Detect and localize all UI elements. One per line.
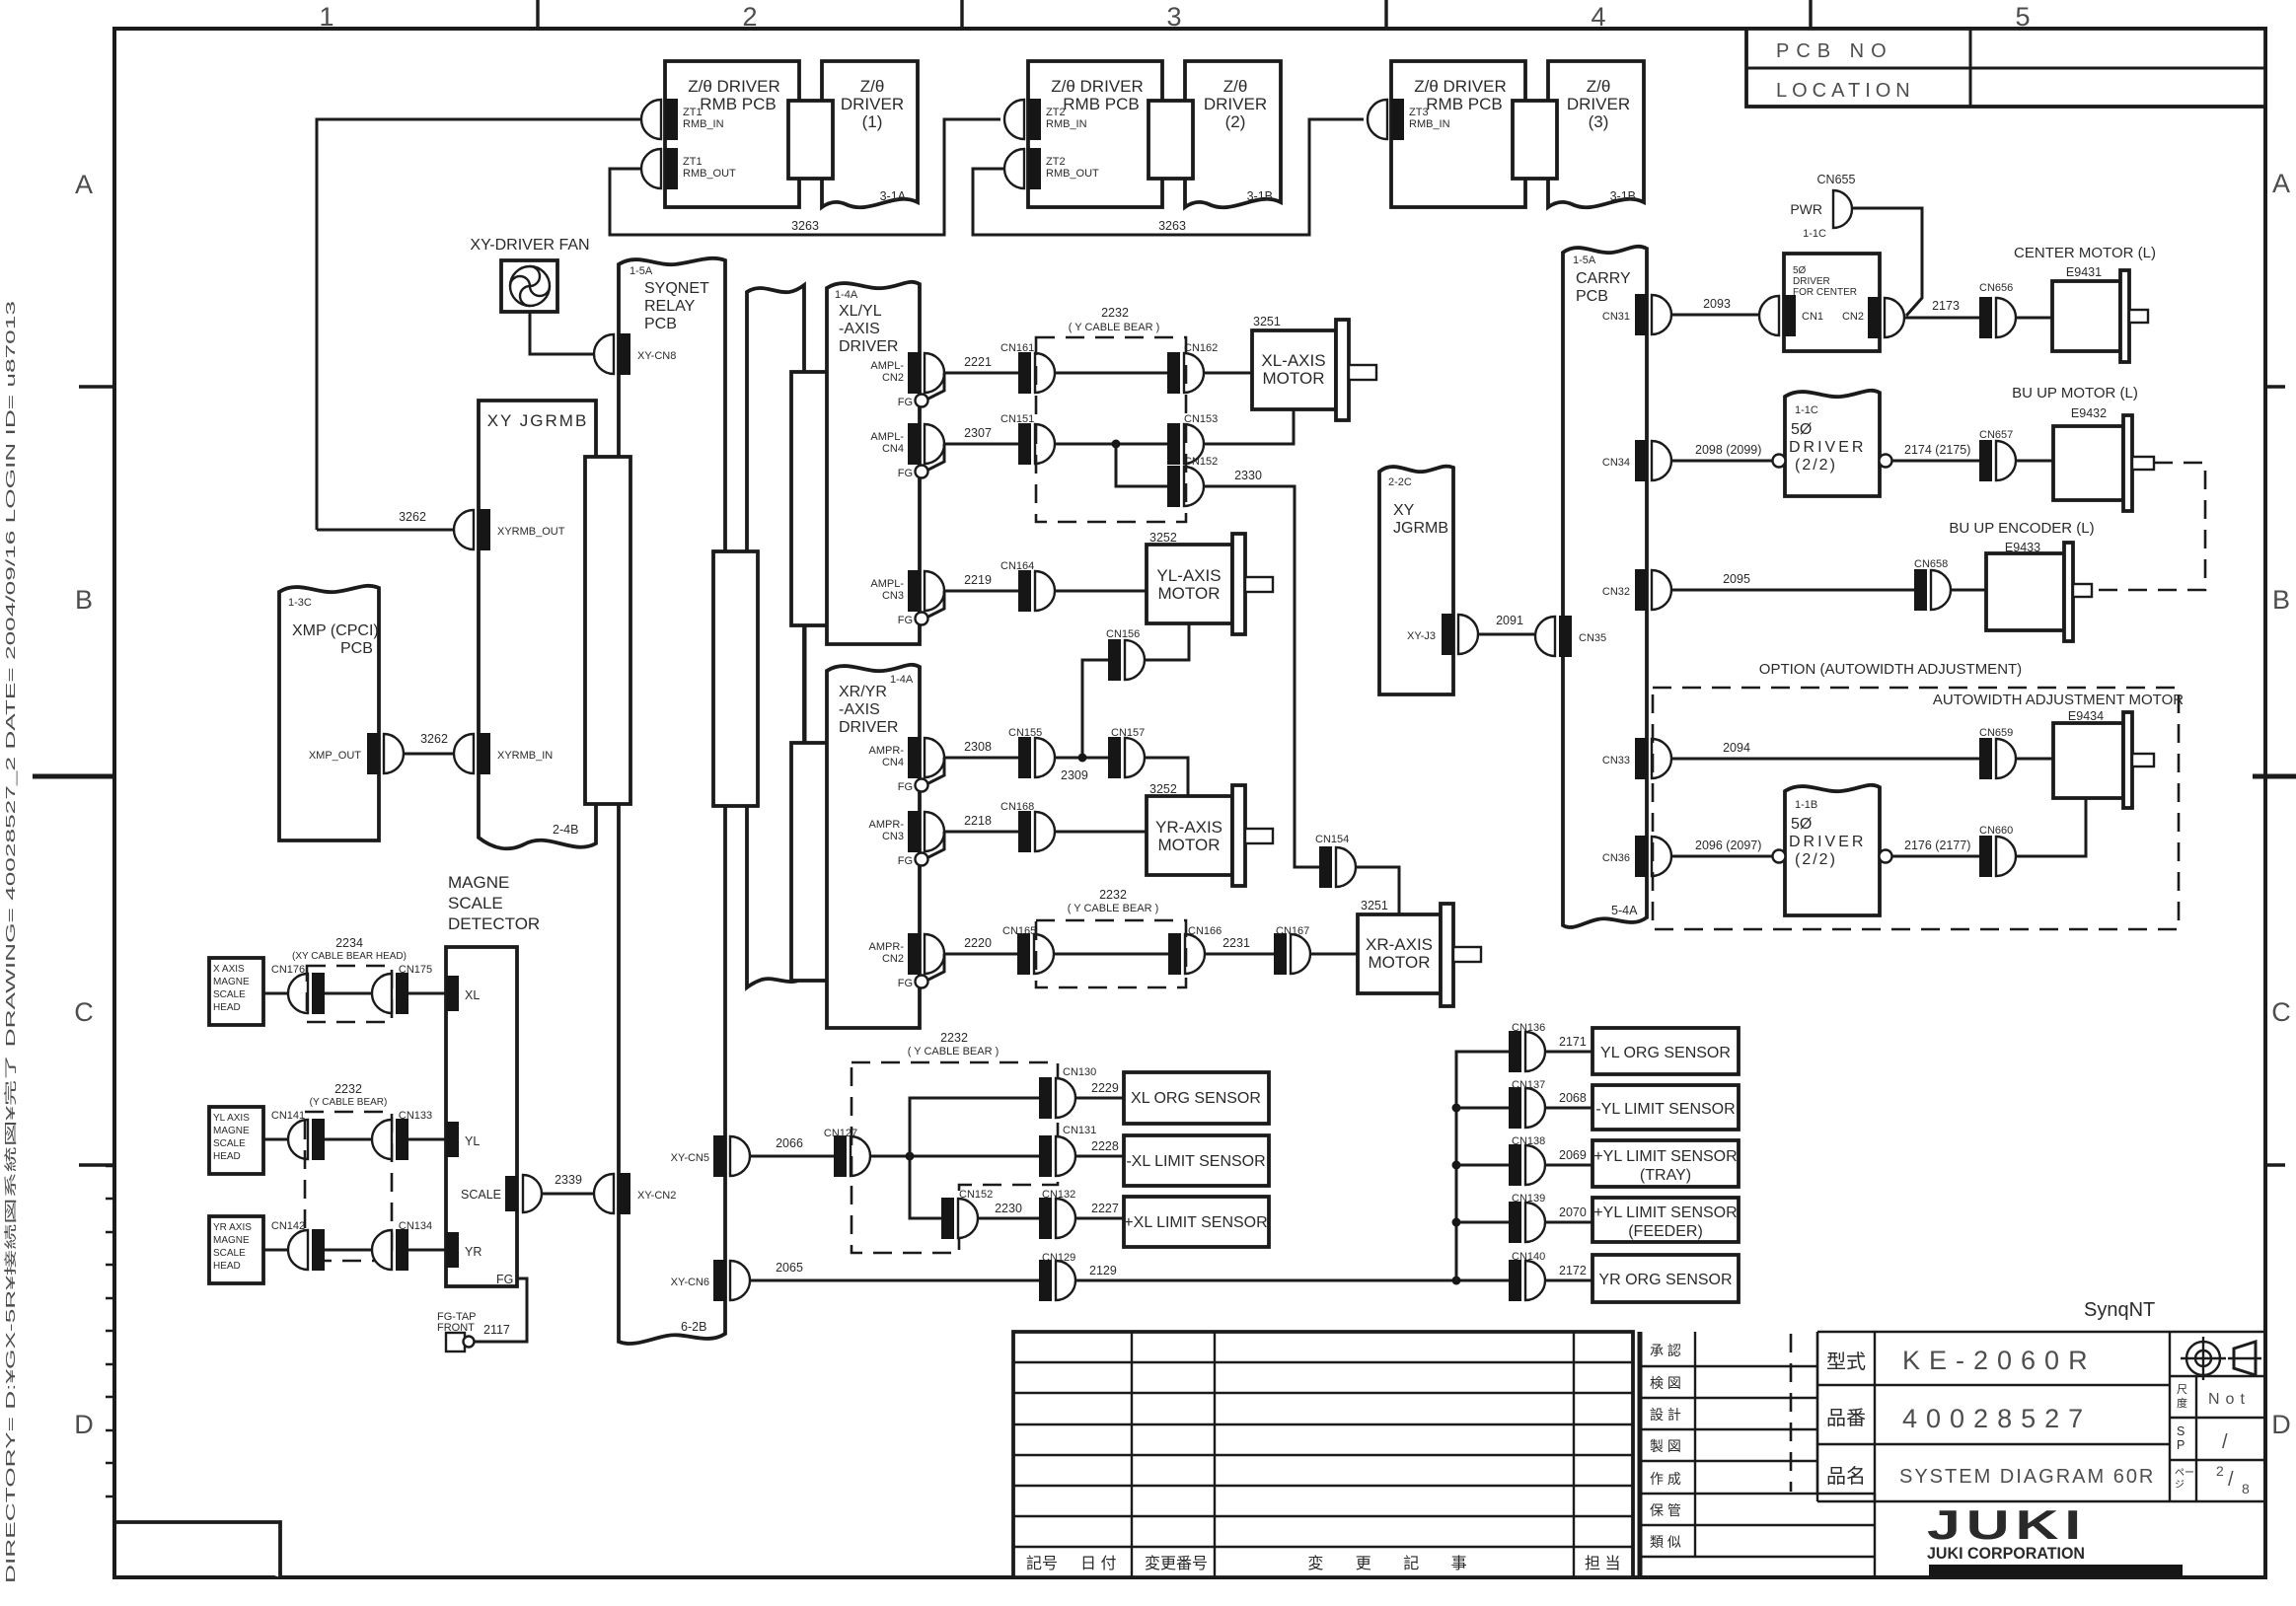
svg-text:YR AXIS: YR AXIS [213, 1222, 252, 1233]
svg-text:YL ORG SENSOR: YL ORG SENSOR [1600, 1045, 1731, 1061]
connector CN139 [1509, 1193, 1545, 1243]
dashed box 2234 XY CABLE BEAR HEAD [292, 936, 407, 1022]
svg-text:SynqNT: SynqNT [2084, 1299, 2155, 1321]
svg-text:A: A [2272, 169, 2290, 198]
svg-text:CN35: CN35 [1579, 632, 1606, 644]
wire 2093 CN31 to CN1 [1671, 297, 1759, 315]
svg-text:RMB PCB: RMB PCB [1426, 95, 1502, 113]
junction CN138 [1452, 1161, 1461, 1170]
svg-text:2232: 2232 [334, 1082, 362, 1096]
svg-text:-YL LIMIT SENSOR: -YL LIMIT SENSOR [1595, 1101, 1735, 1118]
-XL LIMIT SENSOR box [1124, 1135, 1269, 1186]
svg-text:PCB: PCB [1576, 288, 1608, 305]
svg-text:CN166: CN166 [1188, 925, 1222, 937]
svg-text:Z/θ: Z/θ [860, 77, 885, 96]
svg-text:PCB: PCB [340, 640, 373, 657]
svg-text:2308: 2308 [964, 740, 992, 754]
svg-text:4: 4 [1591, 2, 1605, 32]
connector CN127 [824, 1128, 870, 1177]
connector box between RMB PCB and DRIVER(3) [1513, 101, 1557, 179]
cable bus rect middle lower [791, 743, 836, 981]
svg-text:FRONT: FRONT [437, 1322, 475, 1334]
svg-text:MAGNE: MAGNE [448, 873, 509, 892]
svg-text:MAGNE: MAGNE [213, 977, 250, 987]
svg-text:ZT3: ZT3 [1409, 107, 1429, 118]
svg-text:CARRY: CARRY [1576, 270, 1631, 287]
svg-text:Z/θ DRIVER: Z/θ DRIVER [1051, 77, 1144, 96]
wire 3262 XMP_OUT to XYRMB_IN [404, 753, 454, 756]
svg-text:承 認: 承 認 [1650, 1343, 1681, 1358]
connector CN32 [1602, 569, 1671, 611]
-YL LIMIT SENSOR box [1592, 1085, 1739, 1130]
svg-text:( Y CABLE BEAR ): ( Y CABLE BEAR ) [1068, 903, 1159, 914]
connector CN176 [271, 964, 325, 1014]
svg-text:DRIVER: DRIVER [839, 338, 898, 355]
svg-text:JUKI CORPORATION: JUKI CORPORATION [1927, 1544, 2085, 1563]
svg-text:CN4: CN4 [882, 757, 904, 768]
connector CN129 [1039, 1252, 1075, 1301]
wire YL motor bottom to CN156 [1145, 623, 1189, 660]
svg-text:5Ø: 5Ø [1791, 421, 1812, 438]
cable bus rect A over XY JGRMB edge [585, 457, 630, 804]
svg-text:CN156: CN156 [1106, 628, 1140, 640]
svg-text:5-4A: 5-4A [1611, 904, 1638, 917]
svg-text:DRIVER: DRIVER [839, 719, 898, 736]
svg-text:RMB_OUT: RMB_OUT [683, 168, 736, 180]
YL-AXIS MOTOR [1147, 531, 1273, 634]
svg-text:2172: 2172 [1559, 1264, 1587, 1277]
connector XMP_OUT [309, 732, 448, 774]
svg-text:CN138: CN138 [1512, 1135, 1545, 1147]
connector ZT2 RMB_IN [1004, 99, 1087, 140]
svg-text:+XL LIMIT SENSOR: +XL LIMIT SENSOR [1124, 1214, 1267, 1231]
svg-text:CENTER MOTOR (L): CENTER MOTOR (L) [2014, 245, 2156, 261]
wire CN142 to CN134 [325, 1249, 372, 1252]
+XL LIMIT SENSOR box [1124, 1197, 1269, 1247]
connector CN33 [1602, 738, 1671, 779]
svg-text:CN136: CN136 [1512, 1022, 1545, 1034]
svg-text:CN130: CN130 [1063, 1066, 1096, 1078]
Z/theta driver assembly 1: RMB PCB box [665, 61, 799, 207]
wire CN162 to XL motor [1204, 372, 1252, 375]
svg-text:2: 2 [2216, 1463, 2224, 1479]
svg-text:B: B [75, 585, 93, 615]
svg-text:3251: 3251 [1253, 315, 1281, 328]
svg-text:3-1B: 3-1B [1610, 189, 1636, 203]
wire CN141 to CN133 [325, 1138, 372, 1141]
wire 2176 (2177) [1892, 839, 1979, 856]
wire 2308 [944, 740, 1018, 758]
wire CN154 to XR motor top [1356, 867, 1399, 914]
FG pin AMPR-CN2 [898, 954, 944, 989]
svg-text:1-5A: 1-5A [630, 265, 653, 277]
cable bus rect B over SYQNET right edge [713, 551, 758, 806]
svg-text:XR/YR: XR/YR [839, 684, 887, 700]
svg-text:(Y CABLE BEAR): (Y CABLE BEAR) [310, 1097, 388, 1108]
svg-text:E9434: E9434 [2068, 709, 2104, 723]
svg-text:変 更 記 事: 変 更 記 事 [1307, 1555, 1480, 1572]
svg-text:2093: 2093 [1703, 297, 1731, 311]
MAGNE SCALE DETECTOR box [446, 873, 540, 1286]
svg-text:S: S [2177, 1424, 2185, 1438]
svg-text:3-1B: 3-1B [1247, 189, 1273, 203]
connector CN162 [1167, 342, 1218, 394]
svg-text:CN152: CN152 [959, 1189, 993, 1201]
XY JGRMB box (torn bottom) [479, 401, 596, 848]
svg-text:CN658: CN658 [1914, 558, 1948, 570]
svg-text:2095: 2095 [1723, 572, 1750, 586]
dashed cable bear box upper [1036, 306, 1186, 522]
svg-text:A: A [75, 170, 93, 199]
svg-text:2-2C: 2-2C [1388, 476, 1412, 488]
wire 2219 [944, 573, 1018, 591]
approval table [1640, 1332, 1875, 1577]
svg-text:2232: 2232 [1099, 888, 1127, 902]
svg-text:ZT2: ZT2 [1046, 156, 1066, 168]
PCB NO / LOCATION table [1746, 29, 2265, 107]
connector AMPL-CN4 [870, 423, 944, 465]
branch CN137 [1456, 1107, 1509, 1110]
row divider long right [2253, 774, 2296, 779]
wire 2174 (2175) [1892, 443, 1979, 461]
svg-text:2228: 2228 [1091, 1139, 1119, 1153]
svg-text:CN36: CN36 [1602, 852, 1630, 864]
wire 2069 [1545, 1148, 1592, 1165]
svg-text:MAGNE: MAGNE [213, 1235, 250, 1246]
connector CN2 [1868, 297, 1904, 338]
svg-text:B: B [2272, 585, 2290, 615]
svg-text:MOTOR: MOTOR [1369, 953, 1431, 972]
svg-text:CN655: CN655 [1817, 173, 1856, 186]
wire head to CN176 [263, 992, 288, 995]
svg-text:AMPR-: AMPR- [869, 745, 905, 757]
wire junction down to CN152 top [1116, 444, 1167, 486]
svg-text:CN164: CN164 [1000, 560, 1034, 572]
svg-text:CN133: CN133 [399, 1110, 432, 1122]
svg-text:2-4B: 2-4B [553, 823, 578, 837]
FG pin AMPL-CN3 [898, 591, 944, 626]
svg-text:BU UP MOTOR (L): BU UP MOTOR (L) [2012, 385, 2138, 401]
connector CN34 [1602, 440, 1671, 481]
Z/theta DRIVER (2) box with torn bottom [1185, 61, 1281, 207]
svg-text:CN656: CN656 [1979, 282, 2013, 294]
svg-text:FOR CENTER: FOR CENTER [1793, 287, 1857, 298]
svg-text:2091: 2091 [1496, 614, 1523, 627]
connector CN130 [1039, 1066, 1096, 1119]
dashed link BU UP MOTOR to encoder [2092, 463, 2205, 590]
wire into ZT1 RMB_IN from XYRMB_OUT net [317, 119, 641, 530]
svg-text:品名: 品名 [1826, 1465, 1866, 1488]
svg-text:ジ: ジ [2175, 1480, 2185, 1491]
XL ORG SENSOR box [1124, 1072, 1269, 1124]
svg-text:/: / [2228, 1469, 2234, 1491]
svg-text:CN34: CN34 [1602, 457, 1630, 469]
wire 2339 SCALE to XY-CN2 [542, 1173, 594, 1194]
connector CN131 [1039, 1125, 1096, 1177]
svg-text:SCALE: SCALE [213, 1248, 246, 1259]
pin SCALE on detector [461, 1175, 542, 1212]
svg-text:XL: XL [465, 988, 480, 1002]
svg-text:CN142: CN142 [271, 1220, 305, 1232]
part info table [1817, 1332, 2265, 1501]
Z/theta driver assembly 2: RMB PCB box [1028, 61, 1162, 207]
wire CN134 to YR pin [408, 1249, 446, 1252]
svg-text:JGRMB: JGRMB [1393, 520, 1448, 537]
BU UP MOTOR (L) [2012, 385, 2154, 511]
svg-text:CN137: CN137 [1512, 1079, 1545, 1091]
wire 2227 [1075, 1202, 1124, 1218]
5 phase DRIVER (2/2) box upper (torn top) [1785, 391, 1880, 496]
wire 2096 (2097) [1671, 839, 1772, 856]
XMP (CPCI) PCB box (torn top) [279, 586, 379, 840]
svg-text:( Y CABLE BEAR ): ( Y CABLE BEAR ) [908, 1046, 1000, 1058]
junction CN139 [1452, 1218, 1461, 1227]
XL/YL-AXIS DRIVER box (torn top) [827, 282, 920, 644]
svg-text:3263: 3263 [1158, 219, 1186, 233]
wire CN157 to YR motor top [1145, 758, 1188, 796]
svg-text:2234: 2234 [335, 936, 363, 950]
svg-text:CN131: CN131 [1063, 1125, 1096, 1136]
svg-text:1-5A: 1-5A [1573, 255, 1596, 266]
connector CN141 [271, 1110, 325, 1160]
svg-text:RMB_IN: RMB_IN [1046, 118, 1087, 130]
wire 2070 [1545, 1205, 1592, 1222]
row divider ticks right [2263, 387, 2285, 1165]
YL AXIS MAGNE SCALE HEAD box [209, 1107, 263, 1174]
svg-text:SYSTEM DIAGRAM 60R: SYSTEM DIAGRAM 60R [1899, 1466, 2155, 1488]
svg-text:Not: Not [2208, 1391, 2251, 1408]
dashed cable bear box lower [1036, 888, 1186, 987]
row divider long left [33, 774, 116, 779]
svg-text:DRIVER: DRIVER [841, 95, 904, 113]
svg-text:D: D [74, 1410, 94, 1439]
svg-text:E9432: E9432 [2071, 406, 2107, 420]
svg-text:CN2: CN2 [1842, 311, 1864, 323]
svg-text:XY-CN2: XY-CN2 [637, 1190, 676, 1202]
connector XY-CN2 [594, 1173, 676, 1214]
BU UP ENCODER (L) [1949, 520, 2094, 641]
svg-text:2230: 2230 [995, 1202, 1022, 1215]
svg-text:FG: FG [898, 978, 913, 989]
wire CN127 to CN131 with junction [870, 1152, 1039, 1161]
svg-text:KE-2060R: KE-2060R [1902, 1346, 2097, 1375]
svg-text:CN162: CN162 [1184, 342, 1218, 354]
wire CN658 to encoder [1951, 589, 1986, 592]
svg-text:HEAD: HEAD [213, 1002, 241, 1013]
svg-text:CN132: CN132 [1042, 1189, 1075, 1201]
svg-text:YR: YR [465, 1245, 481, 1259]
XL-AXIS MOTOR [1252, 315, 1376, 420]
svg-text:2096 (2097): 2096 (2097) [1695, 839, 1761, 852]
svg-text:DETECTOR: DETECTOR [448, 914, 540, 933]
wire CN659 to AUTOWIDTH MOTOR [2016, 758, 2053, 761]
connector CN656 [1979, 282, 2016, 338]
CENTER MOTOR (L) [2014, 245, 2156, 362]
connector CN659 [1979, 727, 2016, 779]
svg-text:5Ø: 5Ø [1793, 265, 1807, 276]
wire CN657 to BU UP MOTOR [2016, 460, 2053, 463]
connector CN132 [1039, 1189, 1075, 1239]
svg-text:(1): (1) [862, 112, 883, 131]
svg-text:XL ORG SENSOR: XL ORG SENSOR [1131, 1090, 1261, 1107]
svg-text:FG: FG [898, 468, 913, 479]
svg-text:2232: 2232 [1101, 306, 1129, 320]
wire 2066 XY-CN5 to CN127 [750, 1136, 834, 1156]
svg-text:SCALE: SCALE [461, 1188, 501, 1202]
svg-text:CN155: CN155 [1008, 727, 1042, 739]
svg-text:+YL LIMIT SENSOR: +YL LIMIT SENSOR [1593, 1148, 1737, 1165]
connector CN168 [1000, 801, 1055, 852]
svg-text:PCB NO: PCB NO [1776, 40, 1893, 62]
input pin circle upper driver [1773, 455, 1786, 468]
FG pin AMPL-CN2 [898, 373, 944, 408]
svg-text:Z/θ: Z/θ [1587, 77, 1611, 96]
svg-text:YR-AXIS: YR-AXIS [1155, 818, 1222, 837]
wire 2129 long run to CN140 with junction [1075, 1264, 1509, 1285]
svg-text:記号: 記号 [1026, 1555, 1058, 1572]
wire CN151 to CN153 with junction [1055, 440, 1167, 449]
wire PWR to 2173 node [1852, 208, 1922, 316]
svg-text:RMB PCB: RMB PCB [700, 95, 776, 113]
svg-text:2: 2 [742, 2, 757, 32]
svg-text:XR-AXIS: XR-AXIS [1366, 935, 1433, 954]
FG-TAP FRONT terminal [437, 1311, 510, 1351]
wire head to CN141 [263, 1138, 288, 1141]
connector CN175 [372, 964, 432, 1014]
svg-text:ZT1: ZT1 [683, 156, 703, 168]
wire XYRMB_OUT stub [317, 529, 454, 532]
svg-text:/: / [2222, 1431, 2228, 1453]
minor ruler ticks lower left frame [106, 1166, 115, 1496]
svg-text:3252: 3252 [1149, 782, 1177, 796]
svg-text:2307: 2307 [964, 426, 992, 440]
svg-text:FG: FG [496, 1273, 513, 1286]
svg-text:XMP_OUT: XMP_OUT [309, 750, 361, 762]
svg-text:DRIVER: DRIVER [1204, 95, 1267, 113]
svg-text:YL AXIS: YL AXIS [213, 1113, 250, 1124]
svg-text:D: D [2271, 1410, 2291, 1439]
YR ORG SENSOR box [1592, 1255, 1739, 1302]
connector AMPR-CN2 [869, 933, 944, 975]
svg-text:YL: YL [465, 1134, 480, 1148]
svg-text:C: C [2271, 997, 2291, 1027]
svg-text:FG: FG [898, 855, 913, 867]
output pin circle upper driver [1880, 455, 1892, 468]
wire CN656 to CENTER MOTOR [2016, 317, 2052, 320]
connector CN657 [1979, 429, 2016, 481]
svg-text:YR ORG SENSOR: YR ORG SENSOR [1598, 1272, 1732, 1288]
wire 2221 [944, 355, 1018, 373]
branch wire down to CN152 [910, 1156, 941, 1218]
svg-text:XY-CN5: XY-CN5 [671, 1152, 709, 1164]
connector CN655 PWR [1790, 173, 1855, 240]
svg-text:AMPR-: AMPR- [869, 941, 905, 953]
svg-text:PWR: PWR [1790, 201, 1822, 217]
svg-text:(FEEDER): (FEEDER) [1628, 1223, 1703, 1240]
svg-text:類 似: 類 似 [1650, 1534, 1681, 1550]
wire 2068 [1545, 1091, 1592, 1108]
XR-AXIS MOTOR [1358, 899, 1481, 1006]
pin YR on detector [446, 1232, 481, 1268]
connector CN155 [1008, 727, 1055, 778]
wire 3263 from ZT1 RMB_OUT to ZT2 RMB_IN [610, 119, 1000, 235]
svg-text:型式: 型式 [1826, 1350, 1866, 1373]
FG pin AMPR-CN3 [898, 832, 944, 867]
cable bus rect middle upper [791, 372, 836, 625]
svg-text:X AXIS: X AXIS [213, 964, 245, 975]
connector CN142 [271, 1220, 325, 1271]
svg-text:CN31: CN31 [1602, 311, 1630, 323]
XY JGRMB box 2-2C (torn top) [1379, 467, 1453, 694]
Z/theta driver assembly 3: RMB PCB box [1391, 61, 1525, 207]
connector box between RMB PCB and DRIVER(1) [788, 101, 833, 179]
svg-text:XY: XY [1393, 502, 1415, 519]
revision table [1013, 1332, 1633, 1577]
svg-text:2219: 2219 [964, 573, 992, 587]
svg-text:CN660: CN660 [1979, 825, 2013, 837]
wire CN165 to CN166 [1054, 953, 1168, 956]
svg-text:CN167: CN167 [1276, 925, 1309, 937]
+YL LIMIT SENSOR (FEEDER) box [1592, 1198, 1739, 1242]
YL ORG SENSOR box [1592, 1028, 1739, 1074]
svg-text:RMB_IN: RMB_IN [683, 118, 724, 130]
svg-text:OPTION (AUTOWIDTH ADJUSTMENT): OPTION (AUTOWIDTH ADJUSTMENT) [1759, 661, 2022, 678]
svg-text:MOTOR: MOTOR [1158, 836, 1221, 854]
junction CN137 [1452, 1104, 1461, 1113]
svg-text:LOCATION: LOCATION [1776, 80, 1915, 102]
svg-text:HEAD: HEAD [213, 1151, 241, 1162]
wire 2172 [1545, 1264, 1592, 1280]
svg-text:2309: 2309 [1061, 768, 1088, 782]
connector AMPL-CN2 [870, 352, 944, 394]
svg-text:40028527: 40028527 [1902, 1404, 2092, 1433]
svg-text:DRIVER: DRIVER [1789, 834, 1866, 850]
branch CN139 [1456, 1221, 1509, 1224]
svg-text:CN2: CN2 [882, 372, 904, 384]
svg-text:CN2: CN2 [882, 953, 904, 965]
wire CN164 to YL motor [1055, 590, 1147, 593]
wire CN176 to CN175 [325, 992, 372, 995]
wire 2094 CN33 to CN659 [1671, 741, 1979, 759]
svg-text:SCALE: SCALE [448, 894, 503, 912]
svg-text:変更番号: 変更番号 [1145, 1555, 1208, 1572]
svg-text:2066: 2066 [776, 1136, 803, 1150]
svg-text:設 計: 設 計 [1650, 1407, 1681, 1423]
svg-text:MOTOR: MOTOR [1263, 369, 1325, 388]
connector CN660 [1979, 825, 2016, 877]
svg-text:(XY CABLE BEAR HEAD): (XY CABLE BEAR HEAD) [292, 951, 407, 962]
connector CN154 [1315, 834, 1356, 888]
wire CN155 to CN157 with junction 2309 [1055, 754, 1108, 783]
wire 2091 [1478, 614, 1535, 634]
connector CN161 [1000, 342, 1055, 394]
svg-text:CN3: CN3 [882, 831, 904, 842]
wire fan to XY-CN8 [530, 312, 594, 354]
wire CN167 to XR motor [1310, 953, 1358, 956]
wire 2218 [944, 814, 1018, 832]
svg-text:1: 1 [319, 2, 333, 32]
wire 2229 [1075, 1081, 1124, 1098]
svg-text:BU UP ENCODER (L): BU UP ENCODER (L) [1949, 520, 2094, 537]
svg-text:2171: 2171 [1559, 1035, 1587, 1049]
svg-text:FG: FG [898, 615, 913, 626]
connector CN157 [1108, 727, 1145, 778]
connector CN140 [1509, 1251, 1545, 1301]
svg-text:3-1A: 3-1A [880, 189, 907, 203]
svg-text:1-1B: 1-1B [1795, 799, 1817, 811]
svg-text:P: P [2177, 1438, 2185, 1452]
wire CN161 to CN162 [1055, 372, 1167, 375]
